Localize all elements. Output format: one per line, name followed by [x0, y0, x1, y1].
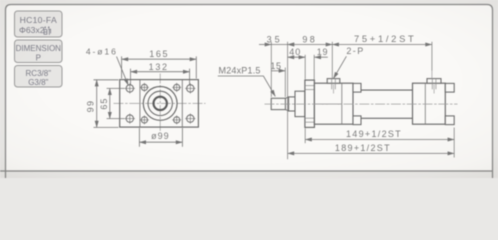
- piston rod circle: [154, 97, 167, 110]
- tie rod holes in flange: [305, 86, 315, 123]
- head port inner centerline: [333, 85, 335, 94]
- title block cell HC10-FA: [15, 11, 63, 37]
- cap tie rod nut top: [445, 83, 454, 92]
- centerline vertical front view: [159, 74, 161, 133]
- rod shoulder: [289, 97, 295, 111]
- mounting hole bottom-left: [125, 113, 135, 123]
- hand-drawn CJK glyph jie (section): [44, 27, 51, 35]
- dimension 149+1/2ST: [305, 139, 454, 141]
- leader 4-diam16: [117, 57, 129, 86]
- page background: [0, 0, 498, 178]
- cap port centerline: [431, 71, 433, 79]
- cap internal line: [424, 83, 426, 124]
- title block cell RC3/8 G3/8: [15, 66, 63, 88]
- extension line thread end: [284, 68, 286, 98]
- extension line flange front face: [304, 55, 306, 80]
- center boss circle outer: [143, 87, 177, 121]
- rear cap block: [413, 83, 446, 124]
- dimension 35: [259, 44, 288, 46]
- gland block: [295, 91, 305, 116]
- cap port boss: [427, 79, 441, 84]
- head rod bore centerline: [314, 103, 341, 105]
- flange plate front view: [120, 80, 199, 128]
- dimension 75+1/2ST: [332, 44, 432, 46]
- dimension 19: [314, 56, 327, 58]
- extension line port 2 center: [431, 42, 433, 71]
- dimension 40: [288, 56, 306, 58]
- centerline horizontal front view: [114, 102, 206, 104]
- leader 2-P: [333, 56, 346, 78]
- head port hole marks: [332, 79, 336, 90]
- drawing sheet frame: [6, 5, 493, 172]
- mounting hole top-left: [125, 83, 135, 93]
- thread runout cone: [285, 97, 288, 111]
- head port boss: [327, 79, 340, 84]
- extension line flange front face lower: [304, 128, 306, 143]
- cap port hole marks: [432, 79, 436, 90]
- head tie rod stub top: [353, 83, 361, 92]
- dimension 98: [288, 44, 333, 46]
- tie rod bottom-right: [172, 115, 181, 124]
- tie rod bottom-left: [140, 115, 149, 124]
- extension line port 1 center: [331, 42, 333, 79]
- dimension diam99: [139, 128, 182, 147]
- dimension 15: [271, 70, 285, 72]
- tie rod top-left: [140, 83, 149, 92]
- mounting hole top-right: [185, 83, 195, 93]
- cylinder body square front view: [140, 80, 182, 128]
- dimension 132: [131, 69, 190, 85]
- title block cell DIMENSION P: [15, 40, 63, 63]
- extension line rod shoulder: [287, 42, 289, 159]
- dimension 65 vertical: [107, 88, 125, 118]
- cylinder head block: [314, 83, 353, 124]
- extension line nut end face: [453, 128, 455, 158]
- center circle middle: [148, 91, 172, 115]
- cap tie rod nut bottom: [445, 116, 454, 125]
- photo vignette: [0, 0, 498, 178]
- dimension 165: [122, 56, 197, 78]
- extension line rod end face: [270, 42, 272, 97]
- cap port inner centerline: [433, 85, 435, 94]
- front flange plate side view: [305, 80, 315, 127]
- centerline horizontal side view: [265, 103, 458, 105]
- head internal line: [341, 83, 343, 124]
- piston rod threaded end: [271, 98, 285, 109]
- extension line flange rear face: [313, 55, 315, 83]
- head tie rod stub bottom: [353, 116, 361, 125]
- cylinder tube: [353, 90, 413, 118]
- mounting hole bottom-right: [185, 113, 195, 123]
- dimension 99 vertical: [94, 80, 119, 128]
- leader M24xP1.5: [218, 76, 275, 96]
- tie rod top-right: [172, 83, 181, 92]
- dimension 189+1/2ST: [288, 152, 455, 154]
